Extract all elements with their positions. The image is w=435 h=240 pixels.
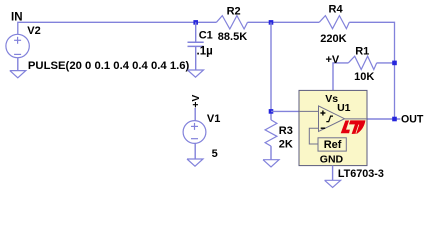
wire +IN to U1 <box>271 110 319 112</box>
svg-text:Ref: Ref <box>324 139 342 151</box>
hysteresis symbol <box>326 116 333 122</box>
svg-text:.1µ: .1µ <box>197 46 213 58</box>
wire U1 GND pin <box>332 166 334 181</box>
wire C1 top <box>195 22 197 42</box>
svg-text:R3: R3 <box>279 125 293 137</box>
svg-text:R2: R2 <box>227 5 241 17</box>
wire R3 column <box>270 22 272 120</box>
junction node C1 tap <box>193 20 198 25</box>
capacitor C1 <box>188 42 204 46</box>
Ref box <box>318 138 346 151</box>
svg-text:R4: R4 <box>329 4 344 16</box>
wire R1 right <box>377 62 395 64</box>
wire +V corner to R1 <box>333 63 348 91</box>
svg-text:GND: GND <box>320 154 344 166</box>
ground (under V2) <box>10 71 26 78</box>
svg-text:OUT: OUT <box>401 114 424 126</box>
op-amp plus input mark <box>320 111 325 116</box>
svg-text:U1: U1 <box>337 102 351 114</box>
svg-text:V1: V1 <box>207 113 220 125</box>
svg-text:PULSE(20 0 0.1 0.4 0.4 0.4 1.6: PULSE(20 0 0.1 0.4 0.4 0.4 1.6) <box>28 60 190 72</box>
ground (under V1) <box>187 159 203 166</box>
LT logo <box>341 120 366 134</box>
junction node R1 right <box>392 61 397 66</box>
svg-text:220K: 220K <box>320 33 346 45</box>
svg-text:R1: R1 <box>355 46 369 58</box>
resistor R2 <box>216 16 247 29</box>
wire C1 bottom <box>195 46 197 70</box>
wire V1 top <box>194 108 196 121</box>
resistor R3 <box>265 120 277 146</box>
junction node +IN <box>269 109 274 114</box>
ground (under C1) <box>188 70 204 77</box>
wire OUT <box>367 118 400 120</box>
junction node R3 branch top <box>269 20 274 25</box>
svg-text:+V: +V <box>190 95 202 108</box>
svg-text:88.5K: 88.5K <box>218 31 247 43</box>
svg-text:5: 5 <box>212 148 218 160</box>
wire R3 bottom <box>270 146 272 160</box>
voltage source V1 <box>183 121 206 144</box>
wire V2 bottom to ground <box>17 58 19 71</box>
op-amp U1 body <box>299 90 367 165</box>
op-amp minus input mark <box>321 127 326 129</box>
svg-text:+V: +V <box>326 54 340 66</box>
op-amp U1 triangle <box>299 106 367 144</box>
resistor R4 <box>319 16 349 29</box>
resistor R1 <box>348 56 376 69</box>
svg-text:10K: 10K <box>354 71 374 83</box>
svg-text:2K: 2K <box>279 139 293 151</box>
svg-text:C1: C1 <box>199 30 213 42</box>
svg-text:LT6703-3: LT6703-3 <box>338 168 384 180</box>
ground (under U1) <box>325 180 341 187</box>
wire V1 bottom <box>194 143 196 159</box>
junction node OUT <box>392 117 397 122</box>
svg-text:IN: IN <box>11 11 23 23</box>
wire main top net IN from V2 to right corner <box>18 22 395 119</box>
ground (under R3) <box>263 160 279 167</box>
voltage source V2 <box>6 34 29 57</box>
svg-text:V2: V2 <box>27 25 40 37</box>
